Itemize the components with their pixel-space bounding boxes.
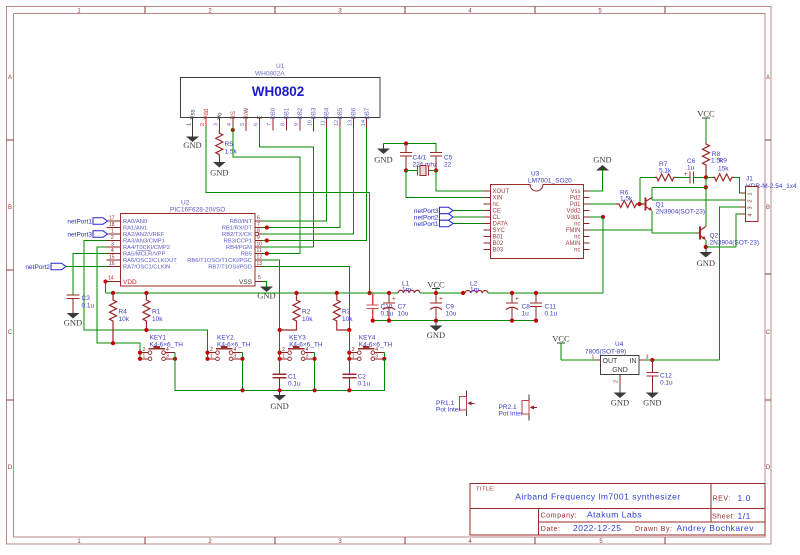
net port netPort1 at U3 DATA [414, 220, 453, 228]
U3 right pin Pd2 [583, 197, 590, 199]
svg-text:13: 13 [348, 120, 354, 126]
wire U2 RA5 MCLR to C3 [73, 254, 107, 296]
svg-text:Vdd: Vdd [204, 109, 210, 120]
border tick right 1 [765, 139, 771, 141]
svg-text:GND: GND [374, 155, 392, 165]
wire emitter node to J1 pin4 column [706, 246, 736, 248]
svg-text:1m: 1m [470, 287, 479, 294]
U2 pin 2 RA3/AN3/CMP1 stub [107, 240, 121, 242]
svg-text:1: 1 [111, 229, 114, 235]
ground below C12 [643, 393, 661, 408]
wire Q1 emitter down [651, 211, 653, 233]
svg-text:2022-12-25: 2022-12-25 [573, 523, 621, 533]
junction KEY1 pin2 [138, 351, 142, 355]
U2 pin 18 RA1/AN1 stub [107, 227, 121, 229]
ground below R5 [210, 157, 228, 178]
svg-text:Andrey Bochkarev: Andrey Bochkarev [677, 523, 755, 533]
wire Q1 collector node to J1 pin2 [652, 199, 741, 201]
svg-text:RB7/T1OSI/PGD: RB7/T1OSI/PGD [208, 265, 252, 271]
svg-text:FMIN: FMIN [566, 228, 581, 234]
wire R8 node down to Q1 collector rail [705, 177, 707, 187]
J1 pin 2 stub [741, 199, 746, 201]
wire U2 VDD pin to rail [105, 282, 107, 294]
svg-text:A: A [8, 75, 12, 81]
U2 body [121, 214, 256, 287]
U1 pin 14 DB7 stub [366, 118, 368, 128]
wire KEY4 column through pins to C2 [348, 330, 350, 374]
net port netPort3 at U3 CE [414, 207, 453, 215]
J1 pin 4 stub [741, 213, 746, 215]
svg-text:B: B [766, 205, 770, 211]
svg-text:R2: R2 [302, 309, 311, 316]
junction ground rail C1 [278, 388, 282, 392]
svg-text:22: 22 [444, 162, 452, 169]
svg-text:10: 10 [307, 120, 313, 126]
border tick top 1 [144, 7, 146, 14]
svg-text:B01: B01 [493, 235, 504, 241]
J1 pin 3 stub [741, 206, 746, 208]
wire KEY2 left pins tie [207, 353, 209, 359]
svg-text:VDD: VDD [123, 279, 137, 286]
svg-text:4: 4 [166, 347, 169, 353]
ground at Q2 emitter [697, 247, 715, 268]
wire DB7 to U2 RB3 [262, 127, 367, 241]
svg-text:1u: 1u [687, 164, 695, 171]
svg-text:Sheet:: Sheet: [712, 514, 736, 521]
resistor R1 [143, 293, 163, 330]
capacitor C2 [342, 374, 370, 391]
wire J1 pin4 column [736, 214, 741, 247]
wire Q2 emitter down to ground node [705, 240, 707, 247]
svg-text:+: + [684, 171, 688, 178]
U2 pin 8 clock bubble [255, 232, 258, 235]
svg-text:PIC16F628-20I/SO: PIC16F628-20I/SO [170, 207, 225, 214]
wire collector node across to Q1 [652, 186, 706, 188]
svg-text:GND: GND [427, 330, 445, 340]
junction collector node [704, 185, 708, 189]
junction filter rail right end [534, 319, 538, 323]
svg-text:R3: R3 [342, 309, 351, 316]
svg-text:Vss: Vss [570, 189, 580, 195]
svg-text:RB2/TX/CK: RB2/TX/CK [222, 232, 252, 238]
svg-text:Airband Frequency lm7001 synth: Airband Frequency lm7001 synthesizer [515, 492, 680, 502]
wire crystal right to U3 XOUT [436, 171, 484, 192]
svg-text:C8: C8 [522, 304, 531, 311]
VDD rail right segment [488, 292, 603, 294]
U3 left pin DATA [484, 223, 491, 225]
U2 pin 15 RA6/OSC2/CLKOUT stub [107, 259, 121, 261]
wire U2 RB7 down to KEY4 column [262, 267, 349, 331]
svg-text:DB1: DB1 [284, 107, 290, 119]
junction U2 RB1 [265, 225, 269, 229]
U1 pin 3 Vo stub [218, 118, 220, 131]
svg-text:C: C [766, 330, 771, 336]
svg-text:0.1u: 0.1u [288, 381, 301, 388]
junction KEY4 pin3 [382, 357, 386, 361]
wire R7 left column to base node [639, 177, 641, 204]
U1 pin 8 DB1 stub unconnected [285, 118, 287, 131]
svg-text:Vdd1: Vdd1 [566, 215, 581, 221]
svg-text:GND: GND [697, 258, 715, 268]
svg-text:1m: 1m [402, 287, 411, 294]
capacitor C6 polarized [676, 158, 707, 183]
svg-text:GND: GND [270, 401, 288, 411]
svg-text:+: + [515, 296, 519, 303]
svg-text:AMIN: AMIN [566, 241, 581, 247]
svg-text:R5: R5 [225, 141, 234, 148]
svg-text:RB1/RX/DT: RB1/RX/DT [222, 226, 253, 232]
svg-text:Q2: Q2 [710, 233, 719, 240]
U3 right pin nc [583, 236, 590, 238]
rail junction C8 top [510, 291, 514, 295]
U3 body with notch [491, 185, 584, 259]
wire KEY4 left pins tie [348, 353, 350, 359]
svg-text:REV:: REV: [713, 496, 731, 503]
title block vertical divider left of REV [710, 484, 712, 522]
VCC flag right [697, 109, 715, 143]
wire U3 Vdd1 to rail drop [590, 216, 604, 218]
svg-text:8: 8 [280, 123, 286, 126]
svg-text:B03: B03 [493, 248, 504, 254]
rail junction R4 top [111, 291, 115, 295]
svg-text:C4/1: C4/1 [413, 155, 427, 162]
wire Q1 collector column [651, 187, 653, 200]
svg-text:1: 1 [282, 353, 285, 359]
svg-text:R9: R9 [719, 158, 728, 165]
border tick left 2 [7, 269, 14, 271]
wire DB5 to U2 RB1 [262, 127, 340, 228]
U3 right pin AMIN [583, 242, 590, 244]
svg-text:7: 7 [257, 222, 260, 228]
filter ground rail [373, 320, 536, 322]
U3 left pin XOUT [484, 190, 491, 192]
LCD module U1 body [181, 78, 381, 118]
VDD rail mid segment [420, 292, 465, 294]
svg-text:CE: CE [493, 209, 501, 215]
U2 pin 9 RB3/CCP1 stub [255, 240, 262, 242]
svg-text:DB5: DB5 [338, 107, 344, 119]
svg-text:2: 2 [282, 347, 285, 353]
junction Vdd feed at VDD rail [368, 291, 372, 295]
svg-text:13: 13 [257, 261, 263, 267]
svg-text:10k: 10k [342, 316, 353, 323]
svg-text:GND: GND [257, 291, 275, 301]
border tick top 4 [534, 7, 536, 14]
svg-text:RB3/CCP1: RB3/CCP1 [224, 239, 252, 245]
svg-text:RA0/AN0: RA0/AN0 [123, 219, 147, 225]
ground flipped at U3 Vss [593, 155, 611, 171]
svg-text:U4: U4 [615, 341, 624, 348]
title block divider under company row [539, 521, 765, 523]
svg-text:GND: GND [612, 367, 628, 374]
svg-text:GND: GND [64, 318, 82, 328]
junction filter rail C9 [434, 319, 438, 323]
ground below C3 [64, 313, 82, 328]
svg-text:2N3904(SOT-23): 2N3904(SOT-23) [656, 209, 706, 216]
svg-text:10: 10 [257, 242, 263, 248]
rail junction C11 top [534, 291, 538, 295]
svg-text:11: 11 [321, 120, 327, 126]
net port netPort2 at U2 RA7 [25, 263, 66, 271]
svg-text:3: 3 [375, 353, 378, 359]
U3 left pin CE [484, 210, 491, 212]
junction KEY3 column top [278, 328, 282, 332]
wire U2 VSS to ground [262, 282, 267, 287]
U1 pin 12 DB5 stub [339, 118, 341, 128]
svg-text:2: 2 [143, 347, 146, 353]
U3 left pin B03 [484, 249, 491, 251]
svg-text:3: 3 [111, 242, 114, 248]
border tick left 1 [7, 139, 14, 141]
wire U3 FMIN to Q1 emitter node [590, 229, 653, 231]
svg-text:Pd2: Pd2 [570, 196, 581, 202]
rail junction L2 left [461, 291, 465, 295]
ground at filter rail [427, 321, 445, 340]
U1 pin 7 DB0 stub unconnected [272, 118, 274, 131]
capacitor C12 [646, 360, 673, 393]
svg-text:WH0802: WH0802 [252, 84, 305, 99]
svg-text:1: 1 [352, 353, 355, 359]
wire KEY3 right pins down to ground rail [314, 353, 316, 391]
svg-text:3: 3 [306, 353, 309, 359]
junction U2 RB3 [265, 238, 269, 242]
svg-text:4: 4 [111, 248, 114, 254]
capacitor C5 [430, 153, 453, 171]
border tick top 2 [274, 7, 276, 14]
svg-text:DATA: DATA [493, 222, 508, 228]
junction R6 / Q1 base / R7 [637, 202, 641, 206]
U2 pin 7 RB1/RX/DT stub [255, 227, 262, 229]
wire U2 RA3 down to key row (R1/KEY2) [84, 241, 208, 353]
U1 pin 9 DB2 stub unconnected [299, 118, 301, 131]
border tick right 2 [765, 273, 771, 275]
svg-text:5: 5 [240, 123, 246, 126]
svg-text:0.1u: 0.1u [358, 381, 371, 388]
transistor Q1 2N3904 [641, 197, 705, 215]
wire netPort2 to CL [453, 216, 484, 218]
capacitor C1 [273, 374, 301, 391]
svg-text:15: 15 [109, 255, 115, 261]
svg-text:RB6/T1OSO/T1CKI/PGC: RB6/T1OSO/T1CKI/PGC [187, 258, 252, 264]
wire E to U2 RB4 [260, 122, 314, 247]
svg-text:Vo: Vo [217, 112, 223, 120]
svg-text:DB4: DB4 [325, 107, 331, 119]
wire R9 to J1 pin1 [734, 177, 741, 193]
U3 left pin CL [484, 216, 491, 218]
wire KEY2 right pins down to ground rail [242, 353, 244, 391]
svg-text:GND: GND [643, 398, 661, 408]
svg-text:2: 2 [200, 123, 206, 126]
svg-text:XIN: XIN [493, 196, 503, 202]
wire Q2 collector up to node [705, 187, 707, 226]
svg-text:nc: nc [574, 222, 580, 228]
border tick bottom 2 [274, 537, 276, 544]
wire netPort1 to DATA [453, 223, 484, 225]
wire crystal left to U3 XIN [406, 171, 484, 198]
U3 right pin FMIN [583, 229, 590, 231]
svg-text:16: 16 [109, 261, 115, 267]
border tick bottom 4 [534, 537, 536, 544]
svg-text:C1: C1 [288, 374, 297, 381]
U1 pin 1 Vss stub [192, 118, 194, 128]
resistor R3 [333, 293, 353, 330]
svg-text:+: + [392, 296, 396, 303]
svg-text:3: 3 [166, 353, 169, 359]
capacitor C4 [400, 144, 437, 171]
U3 left pin B02 [484, 242, 491, 244]
svg-text:Q1: Q1 [656, 202, 665, 209]
svg-text:1.5k: 1.5k [225, 149, 238, 156]
svg-text:1u: 1u [522, 311, 530, 318]
J1 pin 1 stub [741, 192, 746, 194]
capacitor C7 polarized [383, 293, 409, 321]
svg-text:2: 2 [748, 199, 754, 202]
svg-text:5.1k: 5.1k [659, 167, 672, 174]
svg-text:Pot Inter: Pot Inter [499, 411, 524, 418]
U2 pin 8 RB2/TX/CK stub [255, 233, 262, 235]
junction ground rail C2 [347, 388, 351, 392]
svg-text:DB7: DB7 [365, 107, 371, 119]
U1 pin 2 Vdd stub [205, 118, 207, 128]
svg-text:C9: C9 [446, 304, 455, 311]
wire J1 pin3 to regulator input column [720, 207, 741, 360]
svg-text:RA7/OSC1/CLKIN: RA7/OSC1/CLKIN [123, 265, 170, 271]
junction R4 bottom [111, 341, 115, 345]
capacitor C10 (highlighted red) [367, 293, 394, 321]
svg-text:4: 4 [227, 123, 233, 126]
net port netPort3 at U2 RA2 [67, 231, 107, 239]
svg-text:netPort1: netPort1 [414, 221, 439, 228]
U2 pin 17 RA0/AN0 stub [107, 220, 121, 222]
wire U2 RA4 down to key row (R4/KEY1) [97, 247, 140, 353]
svg-text:RA4/T0CKI/CMP2: RA4/T0CKI/CMP2 [123, 245, 170, 251]
U2 pin 16 RA7/OSC1/CLKIN stub [107, 266, 121, 268]
svg-text:+: + [439, 296, 443, 303]
svg-text:Pot Inter: Pot Inter [436, 407, 461, 414]
potentiometer PR2.1 [499, 395, 538, 421]
U1 pin 6 E stub [259, 118, 261, 125]
svg-text:RA6/OSC2/CLKOUT: RA6/OSC2/CLKOUT [123, 258, 177, 264]
svg-text:C2: C2 [358, 374, 367, 381]
svg-text:0.1u: 0.1u [660, 380, 673, 387]
U2 pin 5 VSS stub [255, 281, 262, 283]
svg-text:R/W: R/W [244, 107, 250, 119]
junction Vdd1 [601, 215, 605, 219]
U3 right pin Vdd2 [583, 210, 590, 212]
svg-text:2N3904(SOT-23): 2N3904(SOT-23) [710, 240, 760, 247]
svg-text:3: 3 [213, 123, 219, 126]
svg-text:17: 17 [109, 216, 115, 222]
pushbutton KEY2 symbol [208, 346, 243, 361]
connector J1 body [746, 187, 759, 222]
svg-text:netPort3: netPort3 [67, 232, 92, 239]
svg-text:2: 2 [111, 235, 114, 241]
wire DB4 to U2 RB0 [262, 127, 327, 221]
svg-text:Date:: Date: [541, 526, 561, 533]
svg-text:9: 9 [257, 235, 260, 241]
svg-text:10u: 10u [446, 311, 457, 318]
resistor R5 [216, 130, 238, 157]
VCC flag at rail [427, 280, 445, 294]
svg-text:RB0/INT: RB0/INT [230, 219, 253, 225]
U1 pin 5 R/W stub [245, 118, 247, 132]
svg-text:4: 4 [306, 347, 309, 353]
VDD rail left segment [106, 292, 399, 294]
border tick right 3 [765, 399, 771, 401]
border tick top 5 [664, 7, 666, 14]
svg-text:RA5/MCLR/VPP: RA5/MCLR/VPP [123, 252, 166, 258]
wire U4 IN to J1 pin3 column [645, 359, 720, 361]
svg-text:GND: GND [210, 168, 228, 178]
rail junction R2 top [294, 291, 298, 295]
wire KEY4 right pins down to ground rail [383, 353, 385, 391]
svg-text:7: 7 [267, 123, 273, 126]
title block divider under title row [470, 508, 765, 510]
svg-text:6: 6 [257, 216, 260, 222]
U2 pin 4 RA5/MCLR/VPP stub [107, 253, 121, 255]
junction KEY2 pin3 [240, 357, 244, 361]
svg-text:DB0: DB0 [271, 107, 277, 119]
svg-text:1.5k: 1.5k [620, 196, 633, 203]
svg-text:3: 3 [234, 353, 237, 359]
svg-text:14: 14 [361, 120, 367, 126]
svg-text:A: A [766, 75, 770, 81]
net port netPort1 at U2 RA0 [67, 218, 107, 226]
svg-text:WH0802A: WH0802A [255, 71, 285, 78]
ground at U4 GND pin [611, 385, 629, 408]
svg-text:XOUT: XOUT [493, 189, 510, 195]
crystal X1 [406, 166, 436, 176]
wire Q1 emitter to Q2 base [652, 232, 696, 234]
svg-text:10k: 10k [152, 316, 163, 323]
svg-text:1/1: 1/1 [738, 511, 751, 521]
junction filter rail C7 [387, 319, 391, 323]
svg-text:GND: GND [593, 155, 611, 165]
resistor R9 [706, 158, 734, 181]
svg-text:U1: U1 [276, 63, 285, 70]
U3 left pin B01 [484, 236, 491, 238]
svg-text:RA1/AN1: RA1/AN1 [123, 226, 147, 232]
border tick bottom 3 [404, 537, 406, 544]
svg-text:2: 2 [614, 380, 620, 383]
svg-text:R4: R4 [119, 309, 128, 316]
wire DB6 to U2 RB2 [262, 127, 354, 234]
svg-text:LM7001_SO20: LM7001_SO20 [528, 178, 572, 185]
wire KEY3 column through pins to C1 [279, 330, 281, 374]
svg-text:10u: 10u [398, 311, 409, 318]
pushbutton KEY4 symbol [349, 346, 384, 361]
wire KEY1 right pins down to ground rail [174, 353, 176, 391]
capacitor C8 polarized [506, 293, 530, 321]
svg-text:Vss: Vss [191, 109, 197, 119]
pushbutton KEY1 symbol [140, 346, 175, 361]
svg-text:1: 1 [187, 123, 193, 126]
svg-text:E: E [258, 115, 264, 119]
junction U2 RB5 [265, 251, 269, 255]
junction KEY2 pin2 [205, 351, 209, 355]
U3 right pin Pd1 [583, 203, 590, 205]
svg-text:RA3/AN3/CMP1: RA3/AN3/CMP1 [123, 239, 165, 245]
svg-text:U2: U2 [181, 200, 190, 207]
U2 pin 13 RB7/T1OSI/PGD stub [255, 266, 262, 268]
resistor R6 [616, 190, 644, 208]
svg-text:12: 12 [334, 120, 340, 126]
junction C12 tap [650, 358, 654, 362]
transistor Q2 2N3904 [696, 226, 759, 246]
U1 pin 10 DB3 stub unconnected [312, 118, 314, 132]
rail junction R1 top [144, 291, 148, 295]
svg-text:netPort2: netPort2 [25, 264, 50, 271]
